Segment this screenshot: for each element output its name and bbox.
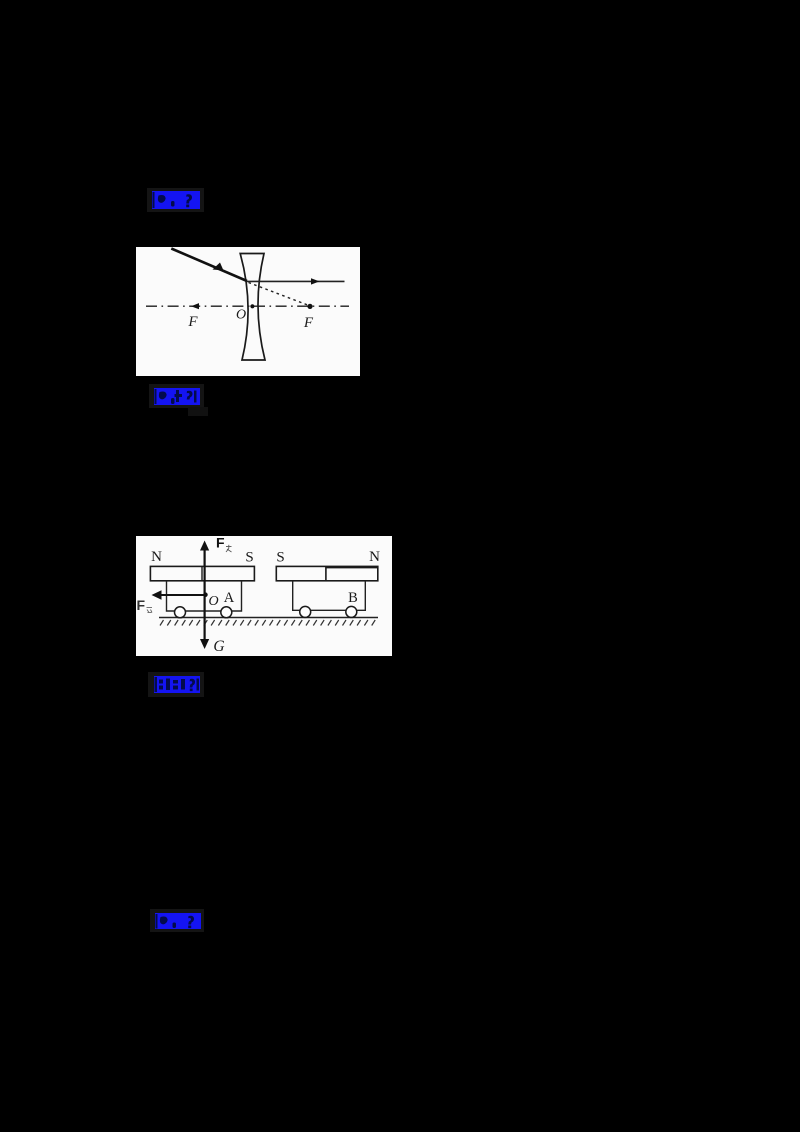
ground line <box>159 617 378 619</box>
figure 2: magnet carts diagram <box>136 536 392 656</box>
vertical force line <box>204 544 206 645</box>
answer tag 2 <box>154 388 200 405</box>
concave lens body <box>240 254 265 361</box>
up arrowhead (normal force) <box>200 541 209 551</box>
svg-text:N: N <box>151 549 162 565</box>
cart B wheel 1 <box>300 606 311 617</box>
svg-text:O: O <box>208 594 218 609</box>
faint remnant text <box>188 407 208 416</box>
answer tag halo 1 <box>147 188 204 212</box>
answer tag halo 3 <box>148 672 204 697</box>
right magnet divider <box>325 566 327 580</box>
svg-text:N: N <box>369 549 380 565</box>
cart A wheel 2 <box>221 607 232 618</box>
svg-text:O: O <box>236 308 246 323</box>
subscript zhi glyph <box>226 545 232 552</box>
svg-text:F: F <box>187 314 198 330</box>
cart A body <box>167 581 242 611</box>
svg-text:S: S <box>276 550 284 566</box>
backward extension dashed to F <box>249 283 310 306</box>
refracted ray <box>247 280 345 282</box>
svg-text:B: B <box>348 590 358 606</box>
left magnet divider <box>201 566 203 580</box>
left arrowhead <box>152 590 162 599</box>
cart A wheel 1 <box>175 607 186 618</box>
svg-text:A: A <box>224 590 235 606</box>
cart B wheel 2 <box>346 606 357 617</box>
answer tag halo 2 <box>149 384 204 408</box>
principal axis <box>146 305 349 307</box>
cart B body <box>293 581 366 611</box>
left magnet bar <box>150 566 254 580</box>
refracted ray arrowhead <box>311 278 320 284</box>
svg-text:F: F <box>216 536 225 551</box>
incident ray arrowhead <box>213 263 224 271</box>
horizontal force line (magnetic) <box>155 594 206 596</box>
right magnet bar <box>276 566 378 580</box>
svg-text:F: F <box>137 597 146 613</box>
incident ray <box>171 249 247 282</box>
svg-text:G: G <box>213 638 224 655</box>
focal point F right dot <box>307 304 312 309</box>
answer tag 1 <box>152 191 200 209</box>
svg-text:S: S <box>245 550 253 566</box>
right magnet heavy right half top edge <box>326 566 378 568</box>
axis left arrowhead <box>191 303 199 309</box>
answer tag 4 <box>155 913 201 930</box>
down arrowhead (gravity) <box>200 639 209 649</box>
ground hatching <box>160 620 375 626</box>
centre of mass dot <box>203 592 208 597</box>
answer tag 3 <box>154 676 200 693</box>
subscript ci glyph <box>147 608 153 613</box>
optical centre dot <box>250 304 254 308</box>
figure 1: diverging lens ray diagram <box>136 247 360 376</box>
svg-text:F: F <box>303 315 314 331</box>
answer tag halo 4 <box>150 909 204 932</box>
